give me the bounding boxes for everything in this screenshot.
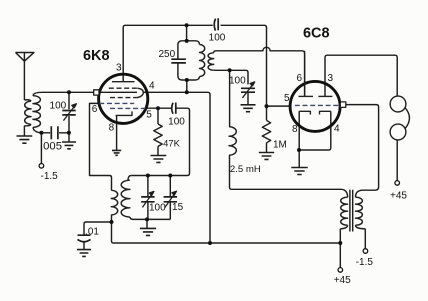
svg-text:100: 100 <box>50 101 67 112</box>
svg-text:8: 8 <box>109 122 115 133</box>
svg-text:100: 100 <box>168 117 185 128</box>
svg-text:6: 6 <box>297 73 303 84</box>
svg-text:1M: 1M <box>273 139 287 150</box>
svg-text:250: 250 <box>159 49 176 60</box>
svg-text:47K: 47K <box>163 137 180 148</box>
svg-text:6C8: 6C8 <box>303 25 330 41</box>
svg-text:-1.5: -1.5 <box>41 171 59 182</box>
svg-text:6: 6 <box>92 104 98 115</box>
svg-text:5: 5 <box>146 109 152 120</box>
svg-text:.005: .005 <box>40 141 62 153</box>
svg-text:15: 15 <box>172 202 184 213</box>
svg-text:4: 4 <box>149 80 155 91</box>
svg-text:.01: .01 <box>85 227 99 238</box>
svg-text:6K8: 6K8 <box>83 48 110 64</box>
svg-text:+45: +45 <box>390 191 407 202</box>
svg-text:+45: +45 <box>334 275 351 286</box>
svg-text:2.5 mH: 2.5 mH <box>230 164 261 175</box>
svg-text:3: 3 <box>116 62 122 73</box>
svg-text:100: 100 <box>229 76 246 87</box>
svg-text:5: 5 <box>284 93 290 104</box>
svg-text:8: 8 <box>292 124 298 135</box>
svg-text:4: 4 <box>334 124 340 135</box>
svg-text:-1.5: -1.5 <box>356 257 374 268</box>
svg-text:100: 100 <box>209 33 226 44</box>
svg-text:3: 3 <box>328 73 334 84</box>
svg-text:100: 100 <box>149 203 166 214</box>
